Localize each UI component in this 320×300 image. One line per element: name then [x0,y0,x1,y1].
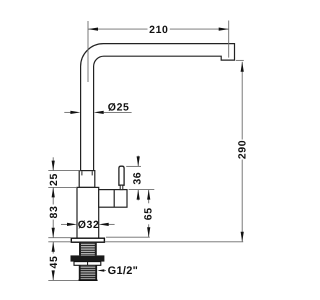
svg-text:25: 25 [48,173,60,186]
svg-text:Ø32: Ø32 [78,219,100,231]
65 dim [148,190,150,204]
lower threaded shank [80,267,97,279]
svg-text:G1/2": G1/2" [108,265,139,277]
36 dim [137,156,139,167]
pipe insertion stubs inside collar [81,171,83,175]
O32 leader [61,223,69,225]
O25 leader [64,111,72,113]
svg-text:210: 210 [149,24,168,36]
290 tick [236,59,244,61]
svg-text:Ø25: Ø25 [108,101,130,113]
handle neck [120,185,123,189]
handle rod [119,166,124,185]
valve cap divider [113,190,115,208]
svg-text:290: 290 [237,140,249,159]
210 extension lines [87,21,89,82]
210 dimension line [88,28,148,30]
spout tube outline [81,44,235,171]
svg-text:83: 83 [48,206,60,219]
arrowheads [52,28,244,281]
G1/2 leader [100,270,106,272]
flange [71,238,104,242]
mounting nut [71,255,105,261]
counter line [105,241,244,243]
290 dimension line [241,62,243,140]
45 dim [52,242,54,254]
upper threaded tube [79,244,96,255]
washer [74,262,101,266]
main body O32 [77,187,99,238]
valve body [99,190,127,208]
ticks y170.6 y187.4 [48,170,80,172]
svg-text:36: 36 [131,172,143,185]
25 dim shafts [52,157,54,170]
svg-text:45: 45 [48,256,60,269]
83 dim line [52,187,54,204]
collar [79,171,95,188]
svg-text:65: 65 [142,207,154,220]
